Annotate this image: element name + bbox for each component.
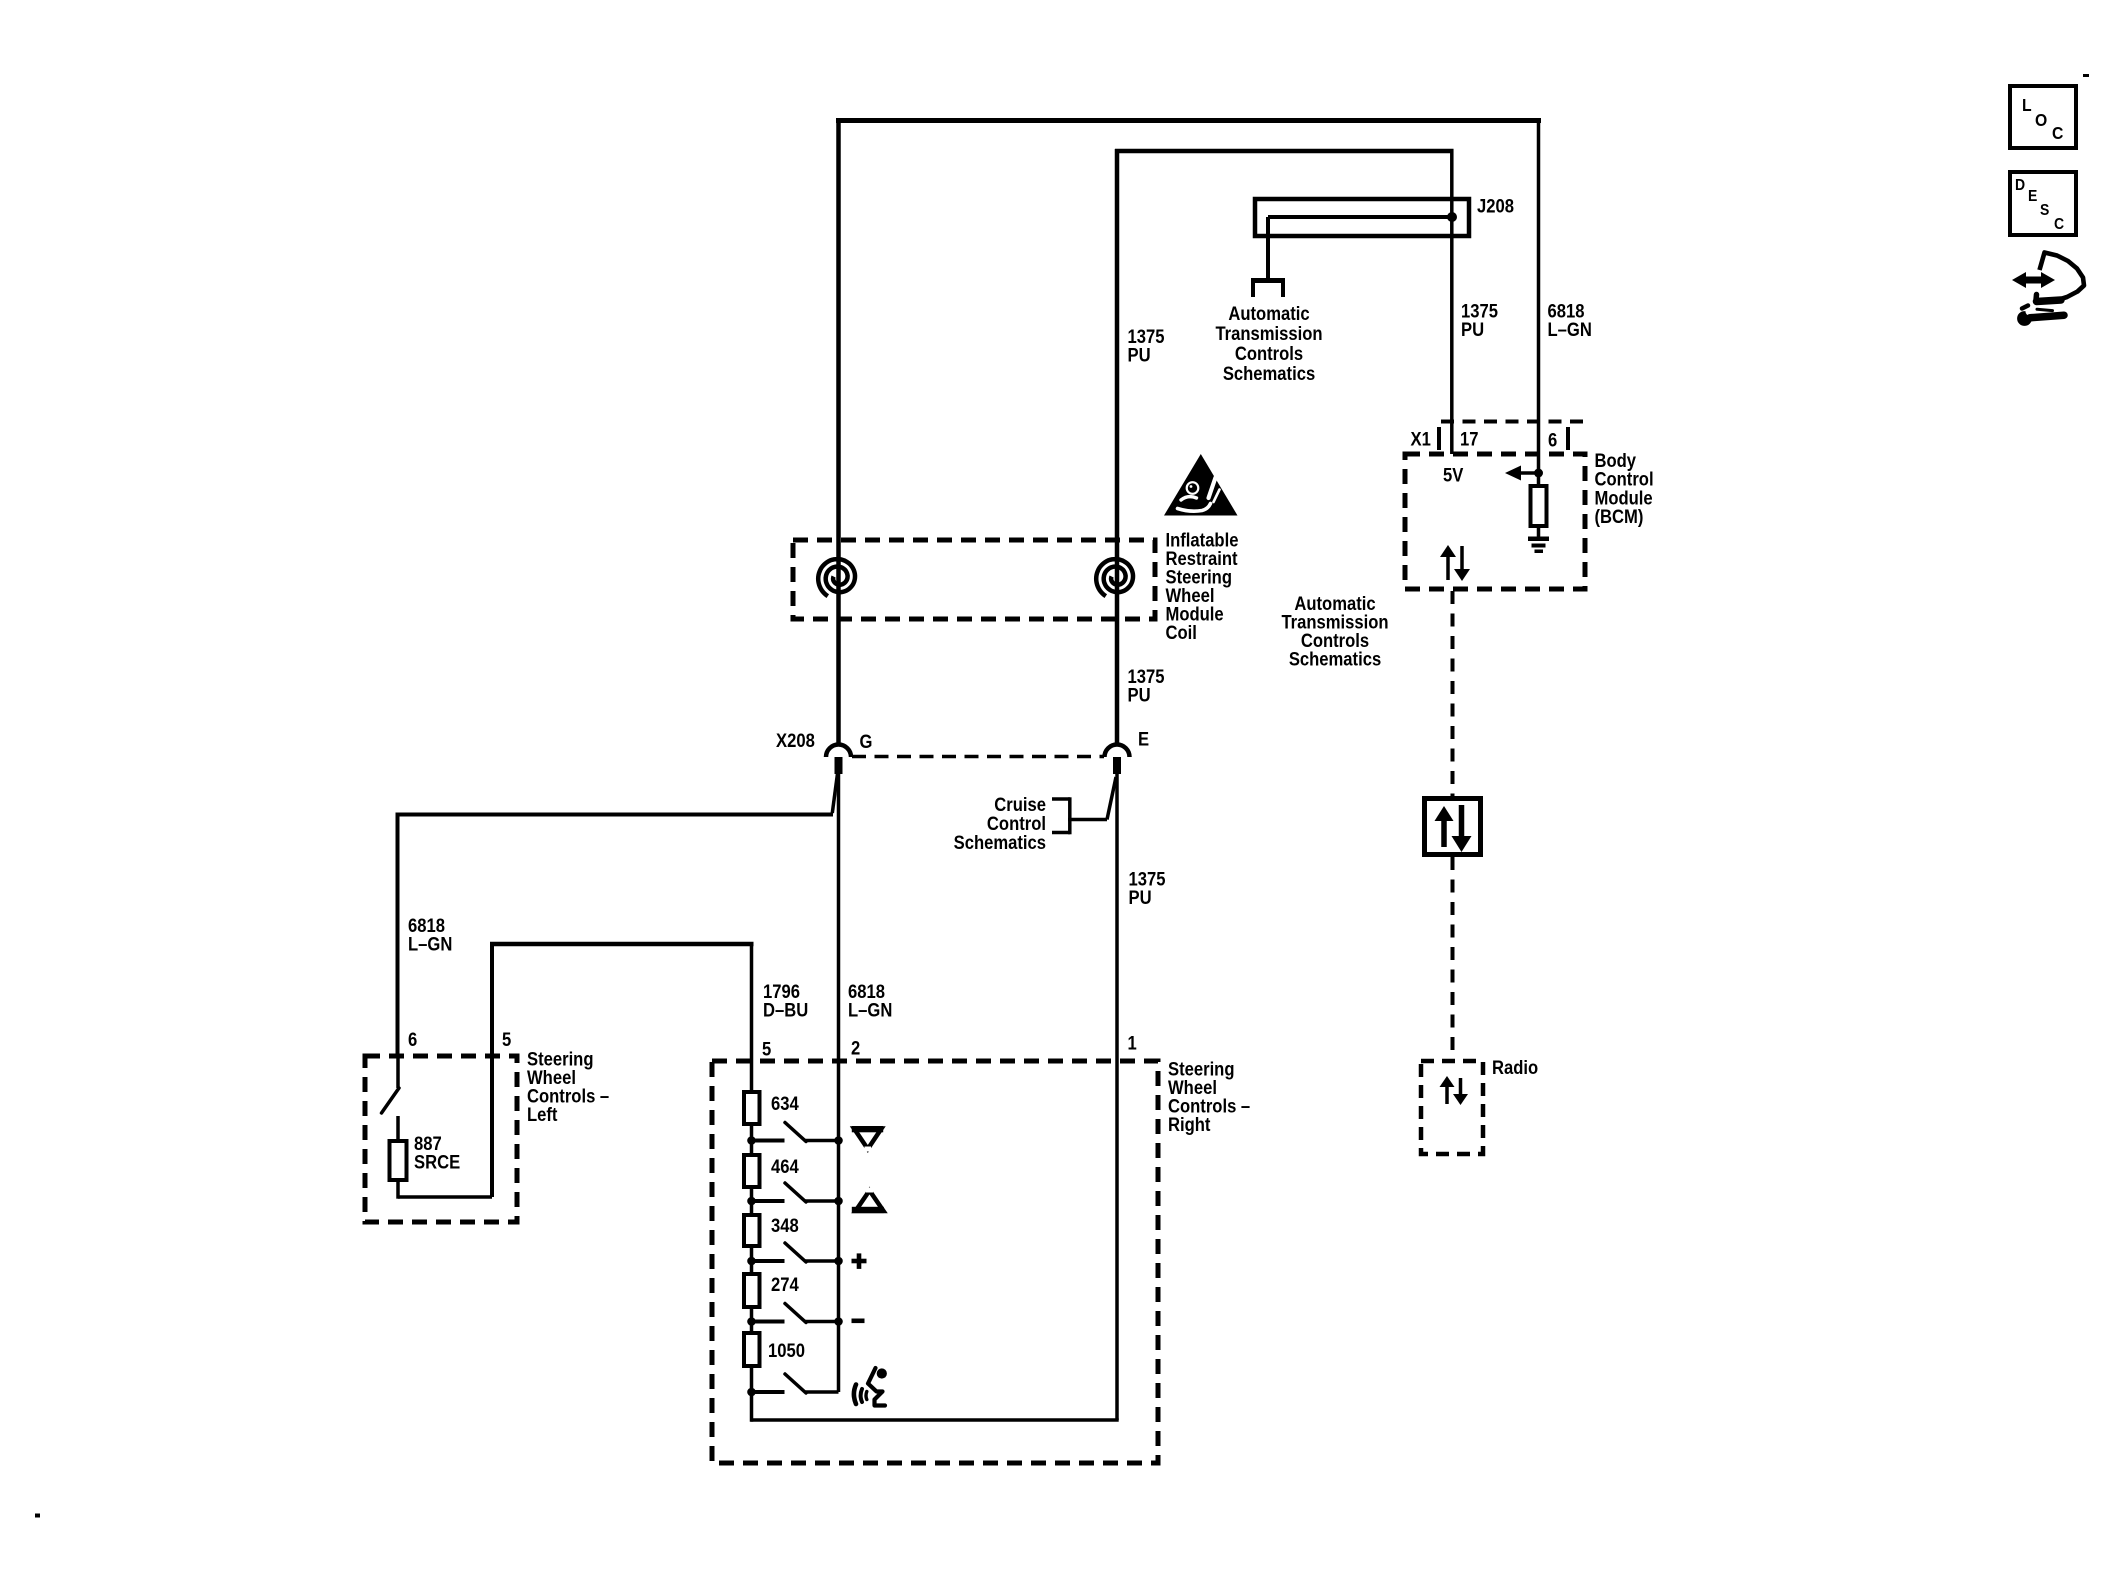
svg-text:D–BU: D–BU	[763, 1000, 808, 1021]
svg-text:E: E	[1138, 728, 1149, 749]
svg-text:L–GN: L–GN	[1548, 319, 1592, 340]
svg-text:C: C	[2054, 215, 2064, 233]
svg-text:5: 5	[502, 1029, 511, 1050]
svg-text:Coil: Coil	[1166, 622, 1197, 643]
svg-text:Radio: Radio	[1492, 1057, 1538, 1078]
svg-text:2: 2	[851, 1037, 860, 1058]
svg-text:S: S	[2040, 201, 2049, 219]
svg-text:348: 348	[771, 1215, 799, 1236]
svg-text:L–GN: L–GN	[408, 934, 452, 955]
svg-text:PU: PU	[1461, 319, 1484, 340]
svg-text:Schematics: Schematics	[1289, 648, 1381, 669]
svg-text:O: O	[2035, 110, 2047, 130]
svg-text:X208: X208	[776, 730, 815, 751]
svg-text:Controls: Controls	[1235, 343, 1303, 364]
svg-text:634: 634	[771, 1093, 799, 1114]
svg-text:D: D	[2015, 176, 2025, 194]
svg-text:Schematics: Schematics	[1223, 363, 1315, 384]
svg-text:5: 5	[762, 1038, 771, 1059]
svg-text:X1: X1	[1411, 428, 1431, 449]
svg-text:5V: 5V	[1443, 464, 1463, 485]
svg-text:1050: 1050	[768, 1340, 805, 1361]
svg-text:274: 274	[771, 1274, 799, 1295]
svg-text:Automatic: Automatic	[1228, 303, 1309, 324]
svg-text:SRCE: SRCE	[414, 1152, 460, 1173]
svg-text:G: G	[860, 731, 873, 752]
svg-text:J208: J208	[1477, 195, 1514, 216]
svg-text:C: C	[2052, 123, 2063, 143]
svg-text:L: L	[2022, 95, 2032, 115]
svg-text:Transmission: Transmission	[1215, 323, 1322, 344]
svg-text:E: E	[2028, 187, 2037, 205]
svg-text:17: 17	[1460, 428, 1479, 449]
svg-text:PU: PU	[1128, 345, 1151, 366]
svg-text:PU: PU	[1128, 685, 1151, 706]
svg-text:L–GN: L–GN	[848, 1000, 892, 1021]
svg-text:Left: Left	[527, 1104, 558, 1125]
svg-text:PU: PU	[1129, 887, 1152, 908]
svg-text:1: 1	[1128, 1032, 1137, 1053]
svg-text:Right: Right	[1168, 1114, 1211, 1135]
svg-text:6: 6	[1548, 429, 1557, 450]
svg-text:Schematics: Schematics	[954, 832, 1046, 853]
svg-text:(BCM): (BCM)	[1595, 506, 1644, 527]
svg-text:6: 6	[408, 1029, 417, 1050]
svg-text:464: 464	[771, 1156, 799, 1177]
